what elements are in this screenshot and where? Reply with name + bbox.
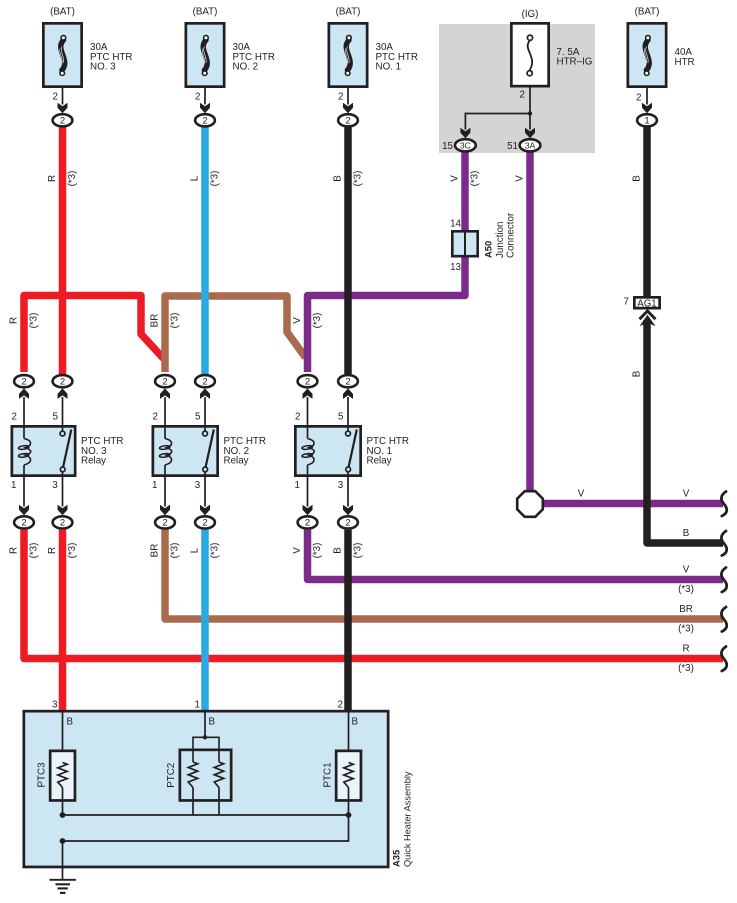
svg-text:(*3): (*3) <box>312 313 323 329</box>
terminal oval 3C <box>455 139 476 151</box>
relay coil <box>307 426 309 439</box>
svg-text:R: R <box>9 547 20 554</box>
svg-text:B: B <box>209 717 216 728</box>
svg-text:(*3): (*3) <box>170 543 181 559</box>
svg-text:(*3): (*3) <box>210 543 221 559</box>
svg-text:2: 2 <box>202 116 207 127</box>
continuation symbol <box>721 568 726 593</box>
relay PTC HTR NO. 3 Relay <box>12 426 75 475</box>
lead from HTR-IG fuse to branch <box>529 88 531 114</box>
svg-text:5: 5 <box>53 412 59 423</box>
svg-text:A35: A35 <box>391 850 402 867</box>
connector AG1 terminal 7 <box>634 297 659 308</box>
svg-text:13: 13 <box>450 262 461 273</box>
terminal oval 2 of fuse NO.2 <box>195 114 215 126</box>
fuse 7. 5A HTR–IG <box>511 23 548 86</box>
resistor PTC1 <box>336 751 361 801</box>
relay pin 5 lead <box>62 397 64 425</box>
terminal oval 3A <box>520 139 541 151</box>
svg-text:2: 2 <box>295 412 300 423</box>
svg-text:Relay: Relay <box>224 456 249 467</box>
svg-text:(*3): (*3) <box>353 171 364 187</box>
junction node on V wire <box>517 491 543 517</box>
relay top terminal ovals <box>298 375 318 387</box>
junction dot below HTR-IG fuse <box>528 111 532 115</box>
svg-text:1: 1 <box>295 480 300 491</box>
ground rail 2 inside heater <box>63 815 349 841</box>
svg-text:R: R <box>47 175 58 182</box>
svg-text:2: 2 <box>338 92 343 103</box>
svg-text:2: 2 <box>345 518 350 529</box>
svg-text:PTC3: PTC3 <box>37 762 48 788</box>
svg-text:V: V <box>578 489 585 500</box>
svg-text:B: B <box>352 717 359 728</box>
svg-text:(*3): (*3) <box>29 313 40 329</box>
svg-text:2: 2 <box>202 518 207 529</box>
fuse 30A PTC HTR NO. 3 <box>43 23 81 86</box>
wire L from 30A PTC HTR NO.2 fuse to relay NO.2 pin 5 <box>201 127 209 374</box>
terminal oval 2 of fuse NO.3 <box>53 114 73 126</box>
svg-text:V: V <box>683 489 690 500</box>
quick heater assembly A35 box <box>24 711 388 867</box>
junction connector A50 pins 14/13 <box>452 231 477 256</box>
terminal arrow 3C <box>460 128 470 139</box>
relay pin 3 lead <box>62 477 64 507</box>
wire B from 40A HTR fuse to connector AG1 <box>643 127 651 296</box>
continuation symbol <box>721 607 726 632</box>
svg-text:B: B <box>632 175 643 182</box>
svg-text:1: 1 <box>644 116 649 127</box>
svg-text:(IG): (IG) <box>522 9 539 20</box>
svg-text:(*3): (*3) <box>67 171 78 187</box>
svg-text:1: 1 <box>152 480 157 491</box>
terminal arrow <box>642 103 652 114</box>
fuse 30A PTC HTR NO. 1 <box>329 23 367 86</box>
svg-text:5: 5 <box>338 412 344 423</box>
continuation symbol <box>721 492 726 517</box>
wire R from 30A PTC HTR NO.3 fuse to relay NO.3 pin 5 <box>59 127 67 374</box>
svg-text:(*3): (*3) <box>470 171 481 187</box>
ground symbol <box>50 879 77 881</box>
relay pin 5 lead <box>347 397 349 425</box>
svg-text:B: B <box>683 528 690 539</box>
heater pin 2 lead <box>348 712 350 763</box>
lead to terminal 3A <box>529 114 531 130</box>
svg-text:Quick Heater Assembly: Quick Heater Assembly <box>403 771 413 867</box>
svg-text:3: 3 <box>52 700 58 711</box>
relay bottom terminal ovals <box>14 516 34 528</box>
svg-text:NO. 3: NO. 3 <box>90 62 116 73</box>
fuse 30A PTC HTR NO. 2 <box>186 23 224 86</box>
svg-text:2: 2 <box>305 518 310 529</box>
svg-text:(*3): (*3) <box>678 663 694 674</box>
svg-text:PTC1: PTC1 <box>323 762 334 787</box>
continuation symbol <box>721 647 726 672</box>
relay coil <box>164 426 166 439</box>
relay switch <box>347 426 349 431</box>
svg-text:3A: 3A <box>525 141 536 151</box>
wire V (*3) from relay NO.1 pin 1 to right edge <box>308 530 724 580</box>
branch wire to terminal 3C <box>465 113 530 115</box>
svg-text:7: 7 <box>624 297 629 308</box>
svg-text:(BAT): (BAT) <box>635 6 660 17</box>
svg-text:2: 2 <box>636 93 641 104</box>
wire B from connector AG1 down and right to edge <box>647 320 723 543</box>
resistor PTC3 <box>50 751 75 801</box>
svg-text:BR: BR <box>679 604 693 615</box>
svg-text:(*3): (*3) <box>170 313 181 329</box>
svg-text:3C: 3C <box>460 141 471 151</box>
relay bottom terminal ovals <box>298 516 318 528</box>
svg-text:2: 2 <box>345 377 350 388</box>
svg-text:(BAT): (BAT) <box>336 6 361 17</box>
svg-text:(*3): (*3) <box>210 171 221 187</box>
svg-text:(BAT): (BAT) <box>193 6 218 17</box>
wire BR (*3) from relay NO.2 pin 1 to right edge <box>165 530 723 619</box>
relay coil <box>23 426 25 439</box>
svg-text:V: V <box>292 317 303 324</box>
svg-text:1: 1 <box>11 480 16 491</box>
svg-text:(*3): (*3) <box>353 543 364 559</box>
svg-text:2: 2 <box>60 518 65 529</box>
svg-text:A50: A50 <box>483 241 494 258</box>
svg-text:V: V <box>450 175 461 182</box>
connector arrow at AG1 <box>640 311 656 319</box>
svg-text:B: B <box>333 175 344 182</box>
relay switch <box>62 426 64 431</box>
svg-text:1: 1 <box>195 700 200 711</box>
svg-text:AG1: AG1 <box>637 298 656 309</box>
relay pin 1 lead <box>307 477 309 507</box>
svg-text:2: 2 <box>53 92 58 103</box>
svg-text:3: 3 <box>195 480 201 491</box>
junction dots on rails <box>60 812 66 818</box>
relay pin 1 lead <box>23 477 25 507</box>
svg-text:BR: BR <box>150 314 161 328</box>
svg-text:2: 2 <box>202 377 207 388</box>
relay PTC HTR NO. 1 Relay <box>295 426 360 475</box>
relay pin 3 lead <box>204 477 206 507</box>
svg-text:(*3): (*3) <box>67 543 78 559</box>
wire V from junction to right edge <box>532 500 723 508</box>
svg-text:L: L <box>190 175 201 181</box>
heater pin 1 lead and branch <box>204 712 206 738</box>
relay pin 2 lead <box>307 397 309 425</box>
terminal arrow <box>58 103 68 114</box>
ground rail 1 inside heater <box>63 814 349 816</box>
relay top terminal ovals <box>155 375 175 387</box>
svg-text:(*3): (*3) <box>678 584 694 595</box>
svg-text:3: 3 <box>52 480 58 491</box>
relay pin 2 lead <box>23 397 25 425</box>
svg-text:(*3): (*3) <box>312 543 323 559</box>
lead from fuse to terminal <box>204 88 206 105</box>
svg-text:2: 2 <box>162 377 167 388</box>
svg-text:B: B <box>333 547 344 554</box>
svg-text:HTR–IG: HTR–IG <box>557 57 593 68</box>
junction dot at PTC2 branch <box>203 735 207 739</box>
svg-text:2: 2 <box>305 377 310 388</box>
relay top terminal ovals <box>14 375 34 387</box>
svg-text:V: V <box>683 565 690 576</box>
lead to ground <box>62 841 64 880</box>
terminal arrow <box>200 103 210 114</box>
svg-text:NO. 2: NO. 2 <box>233 62 259 73</box>
lead from fuse to terminal <box>62 88 64 105</box>
svg-text:2: 2 <box>60 377 65 388</box>
wire V from terminal 3A down to junction <box>526 153 534 501</box>
svg-text:5: 5 <box>195 412 201 423</box>
wire B from 30A PTC HTR NO.1 fuse to relay NO.1 pin 5 <box>344 127 352 374</box>
svg-text:Junction: Junction <box>495 222 506 259</box>
relay PTC HTR NO. 2 Relay <box>153 426 218 475</box>
svg-text:NO. 1: NO. 1 <box>376 62 402 73</box>
svg-text:B: B <box>67 717 74 728</box>
svg-text:L: L <box>190 547 201 553</box>
svg-text:(BAT): (BAT) <box>50 6 75 17</box>
wire BR coil feed: relay NO.2 pin2 up, right, down to splice with V <box>165 296 306 372</box>
relay pin 5 lead <box>204 397 206 425</box>
svg-text:R: R <box>682 644 689 655</box>
terminal oval 2 of fuse NO.1 <box>338 114 358 126</box>
svg-text:Relay: Relay <box>81 456 106 467</box>
IG circuit shaded area <box>439 24 595 153</box>
svg-text:BR: BR <box>150 544 161 558</box>
svg-text:2: 2 <box>12 412 17 423</box>
wire B from relay NO.1 pin 3 to quick heater pin 2 <box>344 530 352 712</box>
lead from fuse to terminal <box>347 88 349 105</box>
svg-text:51: 51 <box>507 141 518 152</box>
svg-text:HTR: HTR <box>675 57 695 68</box>
svg-text:2: 2 <box>162 518 167 529</box>
svg-text:R: R <box>9 317 20 324</box>
svg-text:V: V <box>292 547 303 554</box>
svg-text:Relay: Relay <box>367 456 392 467</box>
svg-text:R: R <box>47 547 58 554</box>
svg-text:2: 2 <box>21 377 26 388</box>
relay pin 1 lead <box>164 477 166 507</box>
wire R from relay NO.3 pin 3 to quick heater pin 3 <box>59 530 67 712</box>
svg-text:2: 2 <box>345 116 350 127</box>
relay bottom terminal ovals <box>155 516 175 528</box>
relay pin 2 lead <box>164 397 166 425</box>
wire L from relay NO.2 pin 3 to quick heater pin 1 <box>201 530 209 712</box>
relay pin 3 lead <box>347 477 349 507</box>
svg-text:PTC2: PTC2 <box>166 763 177 788</box>
svg-text:(*3): (*3) <box>29 543 40 559</box>
lead from fuse to terminal <box>646 88 648 105</box>
wire R (*3) from relay NO.3 pin 1 to right edge <box>24 530 723 659</box>
fuse 40A HTR <box>628 23 666 86</box>
svg-text:2: 2 <box>153 412 158 423</box>
svg-text:(*3): (*3) <box>678 624 694 635</box>
svg-text:2: 2 <box>195 92 200 103</box>
continuation symbol <box>721 531 726 556</box>
terminal arrow 3A <box>525 128 535 139</box>
resistor PTC2 (dual) <box>180 750 231 801</box>
terminal oval 1 of 40A fuse <box>637 114 657 126</box>
svg-text:2: 2 <box>60 116 65 127</box>
wire V coil feed: relay NO.1 pin2 up, right along y295, up to junction connector A50 and 3C <box>308 153 466 373</box>
svg-text:V: V <box>515 175 526 182</box>
heater pin 3 lead <box>62 712 64 763</box>
svg-text:B: B <box>632 370 643 377</box>
svg-text:2: 2 <box>21 518 26 529</box>
svg-text:15: 15 <box>442 141 453 152</box>
svg-text:Connector: Connector <box>506 212 517 258</box>
svg-text:2: 2 <box>520 90 525 101</box>
svg-text:14: 14 <box>450 219 461 230</box>
svg-text:2: 2 <box>338 700 343 711</box>
relay switch <box>204 426 206 431</box>
wire R coil feed: relay NO.3 pin2 up, right along y295, down to splice <box>24 296 164 373</box>
terminal arrow <box>343 103 353 114</box>
svg-text:3: 3 <box>338 480 344 491</box>
